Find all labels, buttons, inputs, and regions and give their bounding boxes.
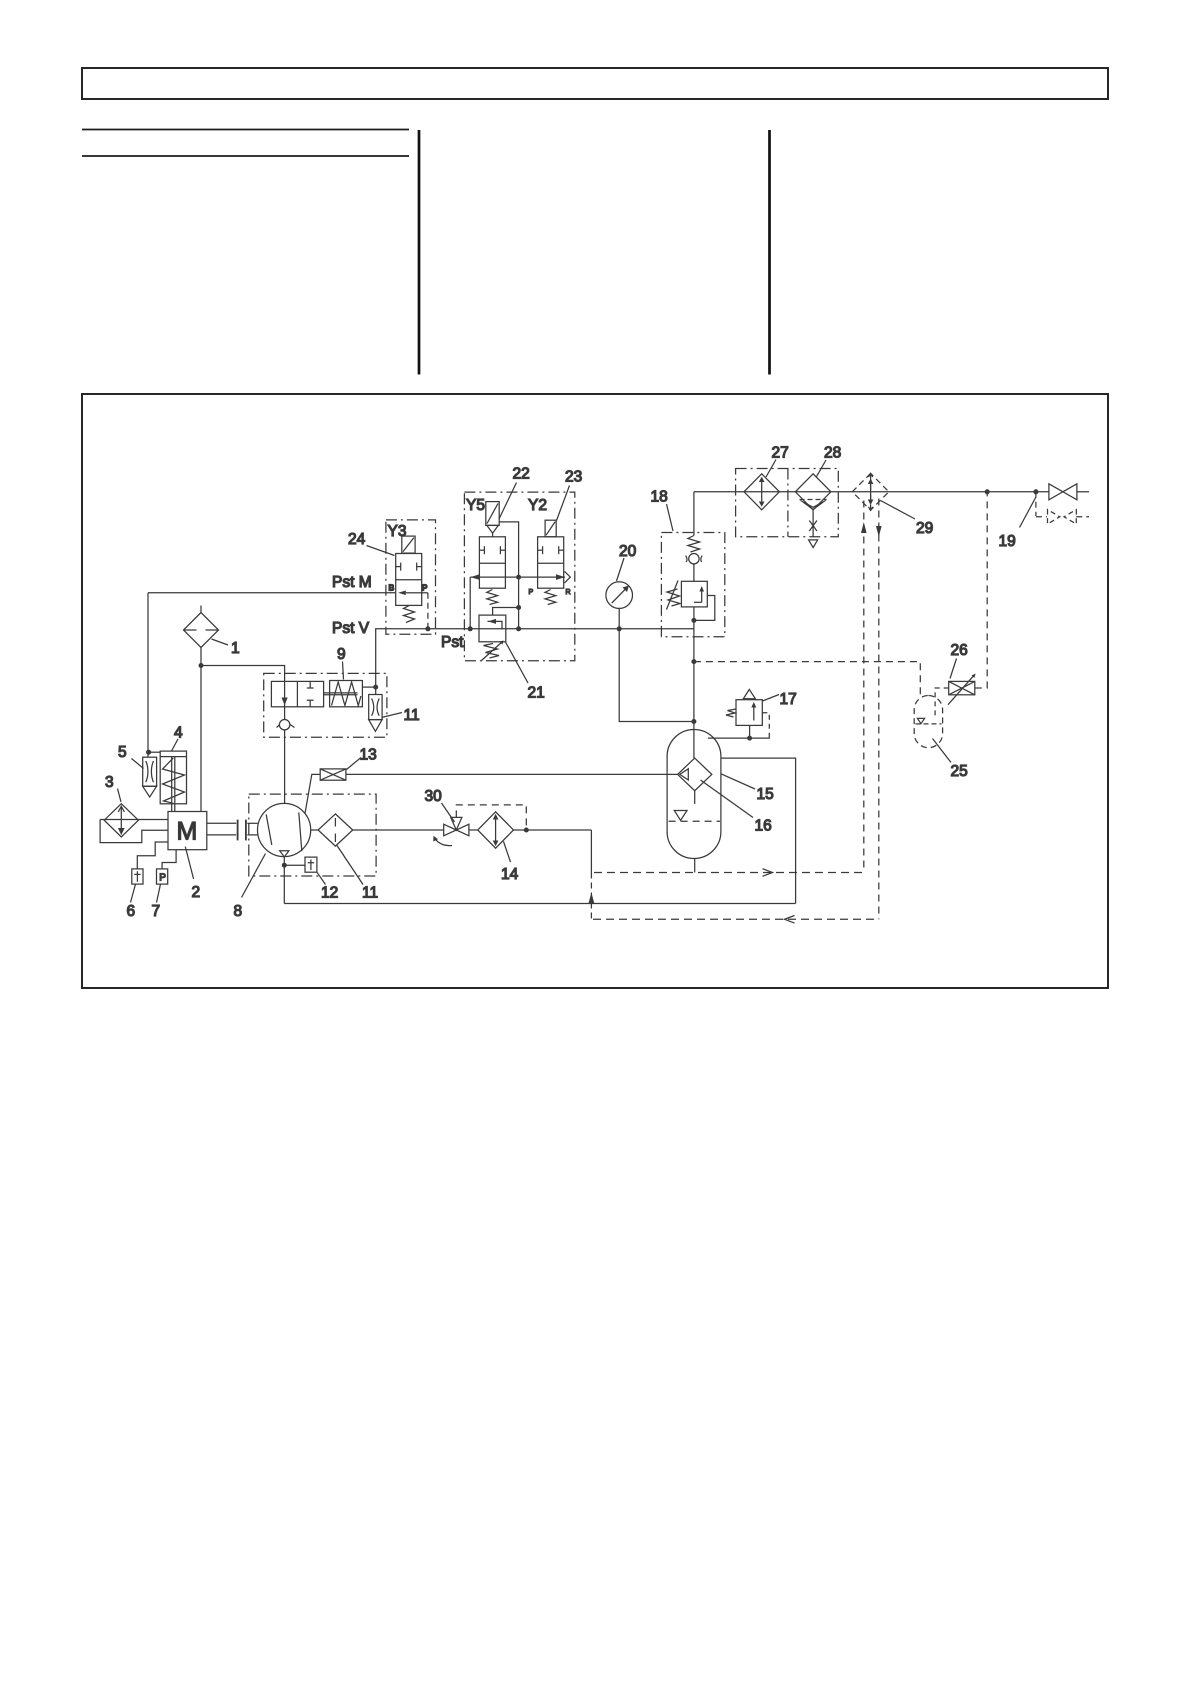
pressure sensor 7 xyxy=(157,869,168,884)
wire: valve 26 left port (dashed) xyxy=(935,688,949,717)
pressure filter 11 (lower diamond) xyxy=(318,814,353,846)
wire: Pst V line xyxy=(376,629,694,687)
label 16 leader xyxy=(701,780,754,818)
label 18 leader xyxy=(667,504,674,531)
wire: pump case drain to orifice 13 xyxy=(305,774,320,813)
header column divider 2 xyxy=(768,130,771,375)
label 5 leader xyxy=(132,759,144,769)
svg-text:24: 24 xyxy=(348,531,366,548)
wire: lower dashed return xyxy=(593,916,879,924)
wire: tank to valve 17 line xyxy=(708,737,770,739)
throttle valve 26 xyxy=(948,674,976,705)
node: branch junction on riser xyxy=(691,659,696,664)
svg-text:B: B xyxy=(389,584,395,593)
valve 24 solenoid xyxy=(402,536,415,553)
wire: valve 26 right port riser (dashed) xyxy=(975,492,987,688)
svg-text:26: 26 xyxy=(951,642,968,659)
label 2 leader xyxy=(185,847,193,879)
valve Y3 enclosure (dashed box) xyxy=(386,520,436,634)
svg-text:Pst V: Pst V xyxy=(332,620,370,637)
wire: suction stub above filter 1 xyxy=(200,606,202,613)
label 15 leader xyxy=(721,774,755,789)
svg-text:7: 7 xyxy=(152,903,161,920)
label 27 leader xyxy=(766,460,776,478)
valve 18 ball check xyxy=(686,554,702,564)
svg-text:Pst: Pst xyxy=(441,634,464,651)
valve 22 body (Y5) xyxy=(479,537,505,588)
svg-text:11: 11 xyxy=(362,885,378,902)
svg-text:Y3: Y3 xyxy=(388,523,407,540)
label 11 leader (lower) xyxy=(337,846,363,885)
svg-text:5: 5 xyxy=(118,744,127,761)
label 9 leader xyxy=(343,662,344,680)
filter 29 (dashed diamond) xyxy=(852,473,889,510)
valve 18 spring xyxy=(688,536,700,553)
svg-text:25: 25 xyxy=(951,763,968,780)
wire: junction down to motor M xyxy=(200,666,202,812)
wire: Y5 output drop xyxy=(469,577,471,629)
node: valve 9 outlet junction xyxy=(373,685,378,690)
filter 14 xyxy=(478,812,514,848)
shaft: motor to coupling xyxy=(207,823,236,835)
svg-text:P: P xyxy=(159,873,166,884)
wire: gauge stem xyxy=(618,608,620,628)
relief valve 17 xyxy=(736,689,762,725)
return filter 16 diamond xyxy=(678,758,712,791)
svg-text:Y5: Y5 xyxy=(466,497,485,514)
filter 27 xyxy=(744,474,779,510)
label 7 leader xyxy=(157,884,161,902)
svg-text:17: 17 xyxy=(780,691,797,708)
wire: tank top-right loop xyxy=(721,758,796,903)
valve 17 spring xyxy=(726,709,736,717)
filter 28 drain xyxy=(809,510,818,548)
node: suction junction xyxy=(199,663,204,668)
wire: dashed drop to test valve xyxy=(1035,492,1037,516)
wire: riser to tank xyxy=(693,629,695,758)
svg-text:23: 23 xyxy=(565,469,582,486)
svg-text:Y2: Y2 xyxy=(528,497,547,514)
svg-text:12: 12 xyxy=(321,885,338,902)
valve 23 spring xyxy=(545,590,556,605)
header rule 2 xyxy=(82,155,409,157)
svg-text:P: P xyxy=(422,584,428,593)
accumulator 25 (dashed capsule) xyxy=(914,696,942,748)
label 8 leader xyxy=(242,854,266,898)
wire: valve 30 bypass (dashed) xyxy=(456,805,526,830)
label 4 leader xyxy=(172,739,179,751)
wire: Pst M drop to filter 5 / comp 4 xyxy=(147,593,149,757)
wire: junction to valve 9 inlet xyxy=(201,666,285,720)
test valve (dashed bowtie) xyxy=(1036,510,1089,524)
svg-text:19: 19 xyxy=(999,533,1016,550)
wire: breather exhaust dashed riser xyxy=(876,499,882,920)
wire: cooler loop xyxy=(100,820,168,843)
valve 18 pilot loop xyxy=(694,596,715,621)
node: Pst V junction solenoid link xyxy=(516,626,521,631)
cooler 3 (heat-exchanger diamond) xyxy=(104,804,138,837)
label 6 leader xyxy=(131,884,136,902)
wire: valve 30 to filter 14 xyxy=(469,829,478,831)
pilot valve group enclosure Pst (dashed box) xyxy=(464,492,574,661)
svg-text:M: M xyxy=(177,818,198,846)
wire: check to relief body xyxy=(693,564,695,581)
svg-text:21: 21 xyxy=(528,685,545,702)
wire: drain line to loop xyxy=(284,903,795,905)
label 26 leader xyxy=(950,659,957,679)
svg-text:28: 28 xyxy=(824,445,841,462)
wire: valve 17 pilot (dashed) xyxy=(762,713,769,738)
svg-text:Pst M: Pst M xyxy=(332,574,372,591)
svg-text:14: 14 xyxy=(501,866,519,883)
wire: return drop dashed with arrow xyxy=(589,873,595,920)
svg-text:9: 9 xyxy=(337,646,346,663)
valve 22 solenoid (Y5) xyxy=(486,502,499,537)
wire: breather intake dashed riser xyxy=(861,501,867,873)
tank 15/16 (capsule vessel) xyxy=(667,730,721,859)
svg-text:6: 6 xyxy=(127,903,136,920)
svg-text:8: 8 xyxy=(234,903,243,920)
svg-text:20: 20 xyxy=(619,543,637,560)
node: sensor 12 junction xyxy=(282,863,287,868)
fluid level mark xyxy=(669,811,720,822)
wire: to sensor 12 xyxy=(284,864,305,866)
filter 5 (restrictor with outlet cone) xyxy=(143,757,157,797)
valve 18 enclosure (dash-dot box) xyxy=(661,533,724,637)
label 11 leader (upper) xyxy=(382,713,403,718)
svg-text:2: 2 xyxy=(192,884,201,901)
title box xyxy=(82,68,1108,99)
node: pilot junction xyxy=(691,618,696,623)
label 30 leader xyxy=(442,803,455,822)
label 19 leader xyxy=(1020,497,1036,528)
restrictor 11 (in valve 9 block) xyxy=(369,687,382,731)
wire: return drop xyxy=(590,830,592,873)
wire: tank bottom outlet xyxy=(694,859,696,873)
coupling xyxy=(238,820,246,841)
temperature sensor 12 xyxy=(305,857,317,872)
node: branch/riser junction xyxy=(691,719,696,724)
label 28 leader xyxy=(816,460,826,478)
motor M2 xyxy=(168,812,207,850)
component 4 (spring-loaded unit) xyxy=(160,751,186,811)
orifice 13 xyxy=(320,769,346,780)
svg-text:R: R xyxy=(566,589,571,596)
svg-text:18: 18 xyxy=(651,489,668,506)
wire: valve 9 outlet xyxy=(362,686,375,688)
label 20 leader xyxy=(617,558,625,581)
ball valve 30 xyxy=(433,817,469,845)
valve 21 spring xyxy=(482,641,504,661)
svg-text:22: 22 xyxy=(513,466,530,483)
valve 24 spring xyxy=(404,605,415,622)
node: drain junction xyxy=(747,736,752,741)
svg-text:P: P xyxy=(529,589,534,596)
pump 8 xyxy=(258,803,311,857)
node: Pst V junction Y3 xyxy=(425,626,430,631)
node: Pst V junction Y5 drop xyxy=(468,626,473,631)
header rule 1 xyxy=(82,129,409,131)
wire: dashed branch to valve 26 xyxy=(694,662,920,696)
label 25 leader xyxy=(933,739,952,763)
header column divider 1 xyxy=(418,130,421,375)
node: link/arrow junction xyxy=(516,575,521,580)
wire: valve 17 drain xyxy=(749,725,751,738)
wire: filter 14 to return drop xyxy=(514,829,592,831)
wire: orifice 13 to tank filter xyxy=(346,773,678,775)
wire: pump drain drop xyxy=(283,857,285,904)
svg-text:3: 3 xyxy=(105,774,114,791)
valve 9 block (dash-dot box) xyxy=(264,673,387,737)
label 14 leader xyxy=(504,842,511,863)
valve 23 body (Y2) xyxy=(538,537,564,588)
node: bypass junction xyxy=(524,828,529,833)
wire: solenoid link line xyxy=(499,522,518,629)
node: comp 4/5 junction xyxy=(146,750,151,755)
wire: relief to pilot junction xyxy=(693,607,695,629)
label 24 leader xyxy=(367,546,395,556)
node: main line / valve 26 riser xyxy=(985,489,990,494)
wire: filter 1 to junction xyxy=(200,648,202,666)
valve 21 (pressure reducing) xyxy=(479,615,506,642)
wire: pilot flow arrow line xyxy=(470,571,570,583)
wire: Y3 P-port pilot drop (dashed) xyxy=(422,593,428,629)
filters 27/28 enclosure (dash-dot box) xyxy=(736,469,839,537)
svg-text:11: 11 xyxy=(404,707,420,724)
valve 18 relief body xyxy=(681,581,707,607)
label 21 leader xyxy=(506,642,529,683)
node: main line / valve 19 branch xyxy=(1033,489,1038,494)
label 23 leader xyxy=(557,486,570,521)
wire: pump outlet xyxy=(311,829,318,831)
gauge 20 xyxy=(606,582,633,609)
label 22 leader xyxy=(499,483,517,520)
valve 9 proportional spring box xyxy=(324,681,362,707)
diagram frame xyxy=(82,394,1108,988)
shut-off valve 19 xyxy=(1049,484,1089,500)
wire: gauge branch to tank riser xyxy=(619,629,694,722)
node: Pst V junction gauge xyxy=(617,626,622,631)
valve 23 solenoid (Y2) xyxy=(545,520,556,537)
temperature sensor 6 xyxy=(132,869,143,884)
label 3 leader xyxy=(118,789,122,803)
wire: jog to valve 21 xyxy=(493,608,519,616)
valve 24 body (Y3) xyxy=(396,554,422,606)
label 13 leader xyxy=(347,758,362,770)
svg-text:16: 16 xyxy=(755,818,772,835)
svg-text:27: 27 xyxy=(772,445,789,462)
wire: Pst M line xyxy=(148,592,396,594)
svg-text:1: 1 xyxy=(231,640,240,657)
valve 9 body xyxy=(271,681,323,706)
svg-text:29: 29 xyxy=(916,520,933,537)
valve 18 adjustable spring xyxy=(667,581,681,610)
svg-text:15: 15 xyxy=(757,786,774,803)
wire: upper dashed return xyxy=(594,869,864,877)
wire: motor to temperature sensor 6 xyxy=(137,842,168,869)
wire: motor to pressure sensor 7 xyxy=(162,850,176,869)
node: link/21 junction xyxy=(516,605,521,610)
pump housing (dash-dot box) xyxy=(249,794,376,876)
label 17 leader xyxy=(763,695,780,702)
shaft: coupling to pump xyxy=(247,823,257,835)
valve 22 spring xyxy=(487,590,498,605)
wire: filter 11 to valve 30 xyxy=(353,829,444,831)
filter 1 (suction filter diamond) xyxy=(184,613,219,648)
wire: main air line xyxy=(694,491,1049,493)
wire: diamond to level xyxy=(694,791,696,804)
label 12 leader xyxy=(317,872,326,884)
svg-text:13: 13 xyxy=(360,747,377,764)
wire: main riser into valve 18 xyxy=(693,492,695,536)
label 29 leader xyxy=(881,501,916,520)
svg-text:4: 4 xyxy=(174,725,183,742)
wire: check valve to pump top xyxy=(284,730,286,804)
check valve (in valve 9 block) xyxy=(277,720,295,730)
wire: junction to comp 4 xyxy=(149,751,161,753)
filter 28 (breather) xyxy=(795,474,831,510)
label 1 leader xyxy=(212,639,229,645)
svg-text:30: 30 xyxy=(425,788,443,805)
